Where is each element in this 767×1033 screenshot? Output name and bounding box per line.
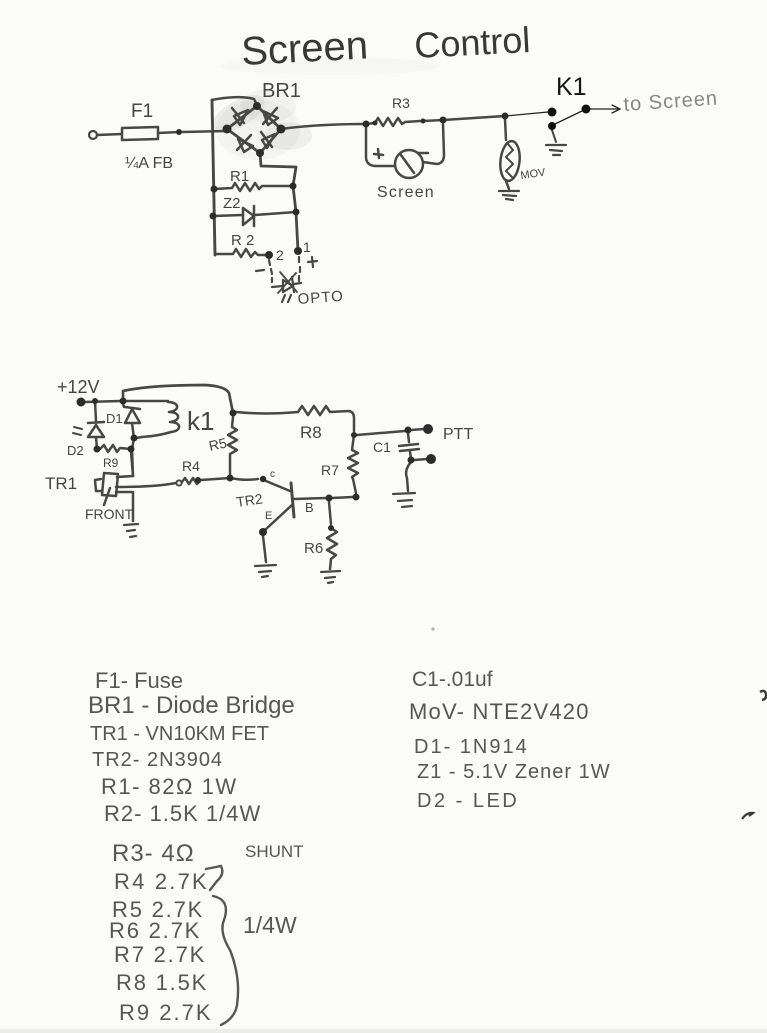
svg-text:2: 2 xyxy=(276,247,284,263)
svg-text:R6: R6 xyxy=(304,540,323,557)
svg-text:R 2: R 2 xyxy=(231,232,254,249)
svg-text:+12V: +12V xyxy=(57,377,100,397)
svg-text:R9 2.7K: R9 2.7K xyxy=(119,1000,213,1025)
svg-text:F1- Fuse: F1- Fuse xyxy=(95,668,183,693)
svg-text:BR1 - Diode Bridge: BR1 - Diode Bridge xyxy=(88,692,295,719)
svg-text:C1: C1 xyxy=(373,439,391,455)
svg-text:E: E xyxy=(265,510,272,522)
svg-text:R7: R7 xyxy=(321,462,339,478)
svg-text:R8: R8 xyxy=(300,423,322,442)
svg-text:PTT: PTT xyxy=(443,426,473,443)
svg-text:1/4W: 1/4W xyxy=(243,912,297,938)
svg-text:R1- 82Ω 1W: R1- 82Ω 1W xyxy=(101,774,238,799)
svg-text:TR1 - VN10KM FET: TR1 - VN10KM FET xyxy=(90,723,269,745)
svg-text:R1: R1 xyxy=(230,168,249,185)
svg-text:k1: k1 xyxy=(187,406,214,436)
svg-text:B: B xyxy=(305,500,314,515)
svg-text:MoV- NTE2V420: MoV- NTE2V420 xyxy=(409,699,590,724)
svg-text:TR2- 2N3904: TR2- 2N3904 xyxy=(92,749,223,771)
svg-text:OPTO: OPTO xyxy=(297,288,344,308)
svg-text:Control: Control xyxy=(413,19,531,66)
svg-text:¼A FB: ¼A FB xyxy=(125,155,173,172)
svg-text:D1: D1 xyxy=(106,411,123,426)
svg-text:Z2: Z2 xyxy=(223,195,241,212)
svg-text:R4 2.7K: R4 2.7K xyxy=(114,869,209,894)
svg-text:Screen: Screen xyxy=(240,23,369,74)
svg-text:R3: R3 xyxy=(392,95,410,111)
svg-text:c: c xyxy=(270,469,275,480)
svg-text:R4: R4 xyxy=(182,458,200,474)
svg-text:R9: R9 xyxy=(103,456,119,470)
svg-text:R6 2.7K: R6 2.7K xyxy=(109,918,201,943)
svg-text:D1- 1N914: D1- 1N914 xyxy=(414,736,529,758)
svg-text:D2: D2 xyxy=(67,443,84,458)
svg-text:R2- 1.5K 1/4W: R2- 1.5K 1/4W xyxy=(104,801,261,826)
svg-text:C1-.01uf: C1-.01uf xyxy=(412,668,493,691)
svg-text:TR1: TR1 xyxy=(45,474,77,493)
svg-text:SHUNT: SHUNT xyxy=(245,842,304,861)
svg-text:FRONT: FRONT xyxy=(85,506,134,522)
svg-text:F1: F1 xyxy=(131,101,153,122)
svg-text:Screen: Screen xyxy=(377,184,435,201)
svg-text:R7 2.7K: R7 2.7K xyxy=(114,942,206,967)
svg-text:R8 1.5K: R8 1.5K xyxy=(116,970,208,995)
svg-text:Z1 - 5.1V Zener 1W: Z1 - 5.1V Zener 1W xyxy=(417,761,611,783)
svg-text:R3- 4Ω: R3- 4Ω xyxy=(112,840,195,867)
svg-text:K1: K1 xyxy=(556,73,587,101)
svg-text:BR1: BR1 xyxy=(262,80,301,102)
svg-text:D2 - LED: D2 - LED xyxy=(417,790,519,812)
svg-text:1: 1 xyxy=(303,239,311,255)
